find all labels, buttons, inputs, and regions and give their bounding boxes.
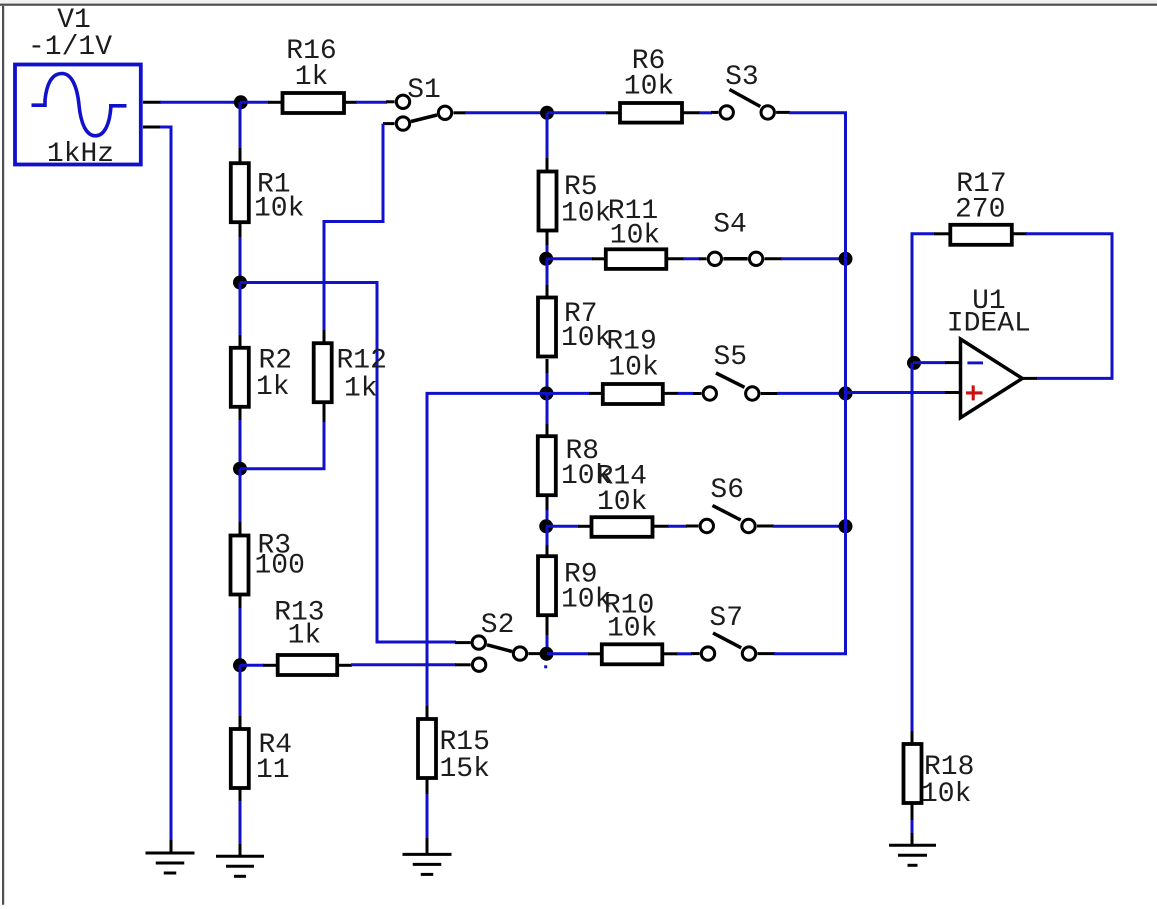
label -1/1V — [28, 32, 112, 63]
switch S4 terminal left — [708, 252, 721, 265]
svg-text:11: 11 — [256, 755, 290, 786]
resistor R16 body — [283, 93, 345, 113]
R2 top pin — [239, 335, 242, 348]
V1 sine wave — [32, 74, 127, 136]
S2 right pin stub — [528, 652, 547, 655]
R11 right pin — [666, 257, 684, 260]
wire V1 to node A — [160, 101, 240, 104]
label R3 value 100 — [255, 551, 305, 582]
svg-text:S1: S1 — [407, 75, 441, 106]
label R1 value 10k — [254, 194, 304, 225]
svg-text:15k: 15k — [440, 754, 490, 785]
svg-text:1k: 1k — [288, 621, 322, 652]
switch S5 blade open — [716, 373, 745, 387]
op-amp output pin stub — [1022, 377, 1037, 380]
label R18 value 10k — [921, 779, 971, 810]
switch S1 terminal right — [438, 106, 451, 119]
label R11 — [608, 196, 658, 227]
label R6 — [632, 46, 666, 77]
resistor R6 body — [620, 103, 682, 123]
R17 right pin — [1010, 232, 1027, 235]
wire R9 to node F — [546, 635, 549, 654]
switch S4 blade closed — [723, 257, 747, 261]
S4 left pin stub — [699, 257, 707, 260]
svg-text:R12: R12 — [337, 346, 387, 377]
switch S1 terminal top-left — [396, 95, 409, 108]
label R18 — [924, 752, 974, 783]
S3 right pin stub — [776, 111, 790, 114]
label R9 value 10k — [561, 585, 611, 616]
R9 bottom pin — [546, 615, 549, 636]
svg-text:10k: 10k — [597, 487, 647, 518]
label R8 — [566, 436, 600, 467]
S2 top pin stub — [455, 641, 471, 644]
wire node J down to R18 — [911, 363, 914, 732]
svg-text:-1/1V: -1/1V — [28, 32, 112, 63]
svg-text:10k: 10k — [610, 221, 660, 252]
label S3 — [725, 62, 759, 93]
op-amp plus pin stub — [945, 391, 960, 394]
wire node E to R9 — [546, 526, 549, 546]
switch S4 terminal right — [749, 252, 762, 265]
R18 bottom pin — [911, 802, 914, 821]
V1 output pin stub — [143, 101, 161, 104]
label S7 — [709, 603, 743, 634]
wire S6 to right bus — [773, 525, 846, 528]
wire R2 to node H — [239, 420, 242, 469]
resistor R18 body — [904, 744, 922, 803]
R6 right pin — [682, 111, 700, 114]
svg-text:S6: S6 — [710, 475, 744, 506]
switch S1 terminal bottom-left — [396, 117, 409, 130]
svg-text:100: 100 — [255, 551, 305, 582]
label R5 value 10k — [561, 199, 611, 230]
wire node I to R4 — [239, 665, 242, 717]
label R14 — [597, 462, 647, 493]
label R7 — [564, 299, 598, 330]
resistor R10 body — [602, 644, 663, 664]
wire node D to R19 — [546, 392, 590, 395]
S4 right pin stub — [765, 257, 783, 260]
R18 ground stub — [911, 833, 914, 845]
wire S4 to right bus — [781, 257, 846, 260]
R12 bottom pin — [323, 402, 326, 423]
R7 bottom pin — [546, 359, 549, 374]
wire V1 ground lead — [160, 127, 171, 841]
label R11 value 10k — [610, 221, 660, 252]
svg-text:IDEAL: IDEAL — [947, 309, 1031, 340]
label R4 — [259, 730, 293, 761]
wire minus input — [913, 361, 946, 364]
R10 right pin — [662, 652, 678, 655]
svg-text:1k: 1k — [256, 372, 290, 403]
op-amp plus symbol — [966, 385, 983, 400]
node F junction — [540, 647, 554, 661]
R4 bottom pin — [239, 787, 242, 802]
label R8 value 10k — [561, 461, 611, 492]
wire node D to R15 — [427, 393, 546, 707]
S7 right pin stub — [757, 652, 775, 655]
R3 bottom pin — [239, 594, 242, 609]
label R16 value 1k — [295, 62, 329, 93]
ground GND1 — [146, 853, 195, 873]
svg-text:1k: 1k — [295, 62, 329, 93]
wire R7 to node D — [546, 373, 549, 393]
wire node D to R8 — [546, 393, 549, 425]
node E junction — [539, 519, 553, 533]
label U1 — [972, 286, 1006, 317]
S6 right pin stub — [757, 525, 774, 528]
R4 top pin — [239, 716, 242, 730]
R14 right pin — [652, 525, 669, 528]
R5 top pin — [546, 158, 549, 172]
label R3 — [258, 531, 292, 562]
window left border — [2, 6, 4, 905]
V1 ground pin stub — [143, 126, 161, 129]
resistor R15 body — [418, 719, 436, 778]
switch S2 terminal top-left — [472, 636, 485, 649]
svg-text:S5: S5 — [713, 342, 747, 373]
label R13 — [274, 598, 324, 629]
svg-text:10k: 10k — [607, 614, 657, 645]
label R19 — [606, 327, 656, 358]
label R15 value 15k — [440, 754, 490, 785]
label R10 — [604, 591, 654, 622]
S5 right pin stub — [761, 392, 778, 395]
svg-text:10k: 10k — [921, 779, 971, 810]
wire R4 to ground — [239, 801, 242, 845]
blue speck below node F — [544, 665, 547, 668]
R17 left pin — [934, 232, 950, 235]
svg-text:S7: S7 — [709, 603, 743, 634]
svg-text:1k: 1k — [344, 374, 378, 405]
right bus junction row2 — [839, 252, 853, 266]
label R12 value 1k — [344, 374, 378, 405]
wire R12 to node H — [240, 422, 324, 469]
R15 top pin — [426, 706, 429, 720]
wire node E to R14 — [546, 525, 579, 528]
R6 left pin — [606, 111, 620, 114]
label R19 value 10k — [608, 353, 658, 384]
op-amp minus pin stub — [945, 361, 960, 364]
switch S3 terminal left — [720, 106, 733, 119]
wire node F to R10 — [546, 652, 589, 655]
voltage source V1 box — [15, 65, 141, 165]
wire S5 to right bus — [777, 392, 846, 395]
switch S2 blade closed — [487, 645, 512, 652]
S7 left pin stub — [691, 652, 700, 655]
wire R8 to node E — [546, 510, 549, 526]
switch S6 terminal right — [742, 519, 755, 532]
resistor R12 body — [314, 343, 332, 402]
label R14 value 10k — [597, 487, 647, 518]
R16 left pin — [268, 101, 282, 104]
R5 bottom pin — [546, 230, 549, 246]
R18 top pin — [911, 731, 914, 745]
svg-text:10k: 10k — [561, 199, 611, 230]
label R6 value 10k — [624, 72, 674, 103]
wire plus input from bus — [846, 391, 947, 394]
label S1 — [407, 75, 441, 106]
label S4 — [713, 210, 747, 241]
wire S1 to node B — [465, 111, 547, 114]
R15 bottom pin — [426, 777, 429, 795]
switch S7 blade open — [713, 633, 741, 648]
R19 right pin — [662, 392, 679, 395]
node I junction — [233, 658, 247, 672]
R3 top pin — [239, 522, 242, 537]
S1 right pin stub — [454, 111, 467, 114]
wire R16 to S1 — [356, 101, 387, 104]
node J junction minus input — [907, 356, 921, 370]
wire R15 to ground — [426, 794, 429, 839]
resistor R14 body — [592, 517, 653, 537]
switch S3 blade open — [730, 90, 761, 107]
label R9 — [564, 560, 598, 591]
resistor R9 body — [538, 556, 556, 615]
R7 top pin — [546, 285, 549, 298]
op-amp U1 triangle — [961, 339, 1023, 418]
resistor R2 body — [231, 348, 249, 407]
label R17 — [956, 169, 1006, 200]
switch S6 terminal left — [700, 519, 713, 532]
node A junction — [234, 95, 248, 109]
R14 left pin — [578, 525, 592, 528]
node B junction — [540, 106, 554, 120]
switch S5 terminal left — [703, 387, 716, 400]
resistor R8 body — [538, 436, 556, 495]
svg-text:10k: 10k — [624, 72, 674, 103]
svg-text:S4: S4 — [713, 210, 747, 241]
wire R14 to S6 — [668, 525, 687, 528]
switch S3 terminal right — [761, 106, 774, 119]
svg-text:10k: 10k — [561, 323, 611, 354]
svg-text:1kHz: 1kHz — [47, 139, 114, 170]
wire R5 to node C — [546, 245, 549, 259]
wire node B to R5 — [546, 113, 549, 159]
window top bar — [0, 0, 1157, 6]
wire node I to R13 — [240, 664, 264, 667]
wire R6 to S3 — [699, 111, 712, 114]
label 1kHz — [47, 139, 114, 170]
wire R18 to ground — [911, 820, 914, 834]
label R16 — [286, 36, 336, 67]
R11 left pin — [592, 257, 606, 260]
node H junction — [233, 462, 247, 476]
resistor R3 body — [231, 536, 249, 595]
R19 left pin — [589, 392, 603, 395]
label V1 — [57, 5, 91, 36]
label R12 — [337, 346, 387, 377]
label S2 — [481, 610, 515, 641]
label R5 — [564, 172, 598, 203]
ground GND3 — [403, 854, 452, 874]
svg-text:270: 270 — [955, 195, 1005, 226]
resistor R11 body — [606, 249, 667, 269]
op-amp minus symbol — [967, 361, 983, 364]
switch S1 blade — [411, 115, 437, 122]
label S5 — [713, 342, 747, 373]
R15 ground stub — [426, 838, 429, 854]
label R13 value 1k — [288, 621, 322, 652]
S1 bottom pin stub — [383, 122, 395, 125]
svg-text:10k: 10k — [608, 353, 658, 384]
wire node G to R2 — [239, 283, 242, 337]
resistor R19 body — [603, 384, 663, 404]
wire R11 to S4 — [683, 257, 700, 260]
switch S7 terminal right — [742, 647, 755, 660]
wire S1 bottom to R12 top — [324, 124, 383, 331]
V1 ground lead stub — [170, 840, 173, 853]
wire R13 to S2 bottom — [351, 663, 456, 666]
R13 right pin — [337, 664, 352, 667]
resistor R4 body — [231, 729, 249, 788]
resistor R1 body — [231, 163, 249, 222]
S6 left pin stub — [686, 525, 698, 528]
label R2 — [259, 346, 293, 377]
wire R1 to node G — [239, 237, 242, 283]
label R10 value 10k — [607, 614, 657, 645]
R8 bottom pin — [546, 496, 549, 511]
S5 left pin stub — [693, 392, 701, 395]
wire node H to R3 — [239, 469, 242, 523]
switch S2 terminal right — [513, 647, 526, 660]
label R2 value 1k — [256, 372, 290, 403]
wire R19 to S5 — [678, 392, 694, 395]
switch S2 terminal bottom-left — [472, 658, 485, 671]
wire R17 to output — [1026, 234, 1112, 379]
wire node B to R6 — [547, 111, 607, 114]
wire R3 to node I — [239, 608, 242, 665]
wire node A to R1 — [239, 102, 242, 149]
label S6 — [710, 475, 744, 506]
node C junction — [539, 252, 553, 266]
resistor R17 body — [950, 225, 1012, 245]
ground GND2 — [216, 856, 264, 876]
R1 top pin — [239, 148, 242, 164]
node G junction — [233, 276, 247, 290]
switch S6 blade open — [713, 506, 741, 521]
wire node C to R11 — [546, 257, 593, 260]
R2 bottom pin — [239, 407, 242, 421]
wire R10 to S7 — [677, 652, 692, 655]
resistor R13 body — [278, 655, 338, 675]
wire S3 to right bus — [789, 113, 846, 260]
label R17 value 270 — [955, 195, 1005, 226]
resistor R7 body — [538, 298, 556, 357]
label R7 value 10k — [561, 323, 611, 354]
label R1 — [257, 170, 291, 201]
switch S5 terminal right — [746, 387, 759, 400]
wire node A to R16 — [240, 101, 269, 104]
R12 top pin — [323, 330, 326, 344]
wire S7 to right bus — [774, 652, 846, 654]
svg-text:10k: 10k — [254, 194, 304, 225]
switch S7 terminal left — [701, 647, 714, 660]
S3 left pin stub — [711, 111, 718, 114]
R16 right pin — [344, 101, 357, 104]
right bus junction row4 — [839, 519, 853, 533]
wire feedback left vertical — [912, 234, 935, 363]
R10 left pin — [588, 652, 602, 655]
node D junction — [540, 386, 554, 400]
ground GND4 — [889, 845, 936, 865]
right bus junction row3 — [839, 386, 853, 400]
label U1 IDEAL — [947, 309, 1031, 340]
wire right bus — [844, 113, 847, 654]
R9 top pin — [546, 545, 549, 557]
label R15 — [440, 727, 490, 758]
R13 left pin — [263, 664, 278, 667]
svg-text:S2: S2 — [481, 610, 515, 641]
label R4 value 11 — [256, 755, 290, 786]
wire node C to R7 — [546, 259, 549, 286]
S1 top pin stub — [386, 100, 395, 103]
R1 bottom pin — [239, 222, 242, 238]
wire node G to S2 top — [240, 283, 456, 643]
S2 bottom pin stub — [455, 663, 471, 666]
resistor R5 body — [539, 172, 557, 231]
R8 top pin — [546, 424, 549, 437]
R4 ground stub — [239, 844, 242, 856]
